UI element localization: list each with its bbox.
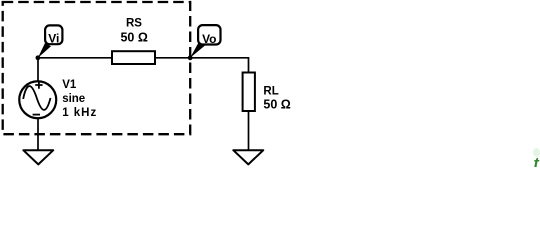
junction node Vo dot bbox=[188, 55, 193, 60]
svg-text:Vo: Vo bbox=[202, 32, 216, 46]
wire: V1 bottom to ground bbox=[37, 119, 39, 150]
junction node Vi dot bbox=[36, 55, 41, 60]
dashed source boundary box bbox=[3, 2, 191, 134]
wire: RL bottom to ground bbox=[248, 112, 250, 151]
plus polarity mark bbox=[35, 81, 42, 88]
voltage source V1 circle bbox=[19, 81, 56, 118]
svg-text:RS: RS bbox=[126, 18, 142, 30]
node label Vi bbox=[45, 25, 62, 45]
svg-text:RL: RL bbox=[263, 86, 278, 98]
svg-text:t: t bbox=[534, 156, 540, 168]
svg-text:50 Ω: 50 Ω bbox=[120, 30, 147, 44]
wire: node Vi to RS left terminal bbox=[38, 57, 112, 59]
wire: RS right terminal to RL top corner bbox=[156, 58, 249, 72]
svg-text:50 Ω: 50 Ω bbox=[263, 98, 290, 112]
svg-text:Vi: Vi bbox=[48, 32, 59, 46]
sine wave inside V1 bbox=[23, 86, 50, 110]
wire: node Vi down to V1 top bbox=[37, 58, 39, 81]
svg-text:1 kHz: 1 kHz bbox=[62, 107, 97, 119]
ground symbol (V1) bbox=[23, 150, 53, 164]
ground symbol (RL) bbox=[233, 150, 263, 164]
node label Vo bbox=[198, 25, 220, 46]
svg-text:V1: V1 bbox=[62, 79, 77, 91]
minus polarity mark bbox=[33, 114, 40, 116]
callout tail for Vi bbox=[38, 43, 51, 58]
svg-text:sine: sine bbox=[62, 93, 85, 105]
resistor RL bbox=[243, 73, 255, 112]
resistor RS bbox=[112, 51, 155, 64]
callout tail for Vo bbox=[190, 42, 205, 58]
